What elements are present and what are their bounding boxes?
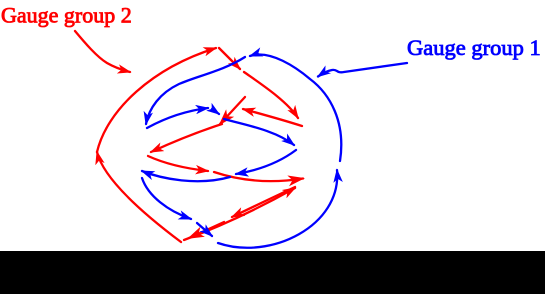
blue arc further left to circle bbox=[142, 171, 230, 181]
blue short arrow down-right bbox=[212, 109, 219, 114]
red long arrow up-right from bottom vertex bbox=[184, 188, 295, 240]
red outer arc upper-left (left vertex to top) bbox=[97, 48, 216, 152]
red leader arrow from label 2 bbox=[75, 31, 130, 72]
blue bottom arc sweeping right and up bbox=[218, 170, 337, 248]
svg-text:Gauge group 2: Gauge group 2 bbox=[1, 3, 132, 28]
red diagonal inward at top bbox=[219, 48, 240, 69]
blue outer right side rising to top bbox=[250, 54, 341, 161]
blue arc back left bbox=[236, 150, 296, 174]
red arc left to row-B tip bbox=[151, 124, 222, 152]
blue outer top-left arc bbox=[146, 57, 245, 124]
blue long arc right bbox=[224, 119, 294, 145]
blue short arrow down-right bottom bbox=[197, 223, 212, 236]
blue outer left-lower arc bbox=[142, 178, 191, 219]
red arrow right to big head bbox=[214, 172, 303, 181]
svg-text:Gauge group 1: Gauge group 1 bbox=[407, 35, 541, 60]
red arc down right side bbox=[244, 72, 298, 118]
black strip at bottom bbox=[0, 251, 545, 294]
red arrow to bottom vertex bbox=[189, 222, 224, 238]
red diagonal down-left in center bbox=[220, 97, 245, 124]
red arc inward-left to center bbox=[243, 109, 302, 126]
red line down-right from row-B tip bbox=[148, 156, 208, 171]
blue leader arrow from label 1 bbox=[318, 63, 407, 77]
blue inward arc up-right bbox=[147, 108, 208, 128]
red return arrow down-left bbox=[232, 187, 295, 217]
red outer arc lower-left (bottom vertex to left vertex) bbox=[97, 152, 181, 242]
